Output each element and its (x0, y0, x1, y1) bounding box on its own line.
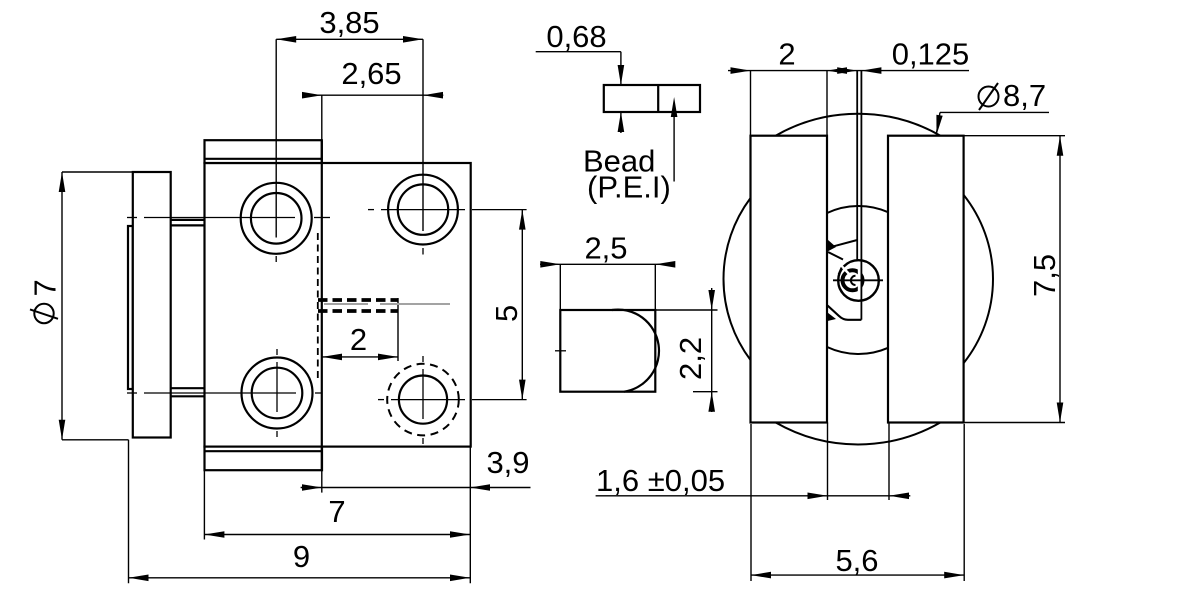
left view: neck top edges (171, 219, 205, 221)
hole bottom-left outer circle (242, 358, 313, 429)
left view: bottom mounting tab (205, 447, 323, 471)
svg-text:8,7: 8,7 (1003, 78, 1046, 113)
dimension 2,65 (302, 94, 443, 96)
dimension 0,125 top (837, 67, 857, 74)
svg-text:2,5: 2,5 (584, 231, 627, 266)
dimension diameter 7 left (61, 172, 63, 440)
center pin outer circle (838, 260, 879, 301)
left view: inner vertical edge (321, 140, 323, 470)
right view: right block rectangle (888, 136, 964, 423)
svg-text:3,85: 3,85 (319, 5, 379, 40)
svg-text:2,2: 2,2 (673, 337, 708, 380)
centerline bottom-right hole vertical (422, 356, 424, 362)
dimension 0,68 leader (536, 51, 621, 53)
pocket hidden slot bottom dashed line (318, 309, 398, 313)
contact D-shaped arc (612, 310, 659, 392)
left view: flange rectangle (133, 172, 171, 438)
bead rectangle (604, 85, 700, 112)
dimension 2 pocket (322, 356, 398, 358)
dimension 5 right of left view (521, 210, 523, 400)
center pin horizontal centerline (833, 279, 883, 281)
hole top-right inner circle (398, 184, 448, 234)
pin slot chamfer bottom lines (828, 306, 862, 320)
contact rectangle (560, 310, 655, 392)
svg-text:9: 9 (293, 539, 310, 574)
svg-text:2,65: 2,65 (341, 56, 401, 91)
svg-text:2: 2 (778, 37, 795, 72)
centerline top holes horizontal (127, 217, 137, 219)
center pin thick ring (843, 270, 863, 290)
hole bottom-right dashed outer circle (387, 364, 459, 436)
svg-text:7,5: 7,5 (1027, 254, 1062, 297)
right view: left block rectangle (751, 136, 828, 423)
dimension 5,6 bottom (751, 574, 964, 576)
pocket hidden slot top dashed line (318, 298, 398, 302)
pocket gray centerline (324, 303, 368, 305)
left view: top mounting tab (205, 140, 322, 163)
pin slot left line (856, 71, 858, 261)
centerline top-right hole horizontal (368, 209, 374, 211)
bead internal line (657, 85, 659, 112)
dimension diameter 8,7 label and leader (940, 111, 1049, 113)
dimension 9 bottom (129, 577, 471, 579)
svg-text:5,6: 5,6 (835, 543, 878, 578)
hole top-left outer circle (241, 183, 312, 254)
dimension 3,85 top (276, 38, 423, 40)
right view: bore circle top arc in gap (827, 206, 888, 213)
svg-text:7: 7 (28, 279, 63, 296)
dimension 3,9 (301, 487, 531, 489)
hole top-right outer circle (388, 175, 458, 245)
svg-text:3,9: 3,9 (486, 445, 529, 480)
right view: outer circle diameter 8,7 top arc (776, 114, 941, 136)
centerline bottom-left hole vertical (276, 349, 278, 355)
right view: bore circle bottom arc in gap (827, 347, 888, 354)
contact left edge tick (555, 350, 566, 352)
svg-text:7: 7 (328, 494, 345, 529)
dimension 1,6 +-0,05 (596, 495, 911, 497)
dimension 2,2 (711, 288, 713, 412)
dimension 7,5 right (1059, 136, 1061, 423)
pin slot chamfer top lines (834, 240, 857, 246)
svg-text:(P.E.I): (P.E.I) (587, 170, 671, 205)
dimension 2,5 (540, 263, 673, 265)
centerline bottom-right hole horizontal (378, 399, 384, 401)
svg-text:5: 5 (489, 305, 524, 322)
svg-text:2: 2 (350, 322, 367, 357)
left view: main body outline (205, 163, 471, 447)
dimension 7 bottom (204, 534, 470, 536)
left view: flange lip (rear gasket) (128, 226, 133, 389)
hole bottom-right inner circle (399, 376, 447, 424)
hidden slot dashed vertical line (317, 233, 319, 379)
right view: outer circle diameter 8,7 bottom arc (776, 423, 941, 445)
svg-text:0,125: 0,125 (892, 37, 970, 72)
bead leader arrow to P.E.I (673, 115, 675, 182)
svg-text:1,6 ±0,05: 1,6 ±0,05 (596, 463, 725, 498)
center pin dashed circle arcs (839, 268, 842, 275)
center pin inner arc (851, 276, 856, 285)
left view: bottom tab inner line (205, 450, 323, 452)
pin slot right line (860, 71, 862, 320)
centerline bottom holes horizontal (127, 392, 137, 394)
right view: flange circle diameter 7 right arc (964, 195, 993, 363)
hole top-left inner circle (251, 193, 302, 244)
hole bottom-left inner circle (252, 368, 303, 419)
left view: neck bottom edges (171, 387, 205, 389)
right view: flange circle diameter 7 left arc (724, 198, 751, 360)
svg-text:0,68: 0,68 (546, 19, 606, 54)
left view: top tab inner line (205, 158, 322, 160)
pocket right edge (397, 298, 399, 313)
dimension 2 right view top (728, 70, 969, 72)
